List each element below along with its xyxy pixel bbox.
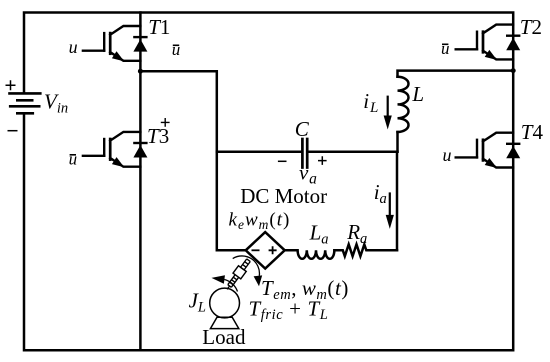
- svg-text:L: L: [411, 82, 424, 106]
- svg-text:Ra: Ra: [346, 220, 367, 247]
- svg-text:Tfric + TL: Tfric + TL: [249, 296, 329, 323]
- svg-text:C: C: [295, 117, 310, 141]
- svg-text:kewm(t): kewm(t): [229, 210, 291, 233]
- svg-text:u: u: [443, 145, 452, 165]
- svg-text:JL: JL: [189, 289, 206, 316]
- svg-text:u: u: [69, 150, 78, 169]
- svg-text:u: u: [69, 37, 78, 57]
- svg-text:T4: T4: [521, 120, 544, 144]
- svg-text:Load: Load: [202, 325, 246, 349]
- svg-text:u: u: [441, 39, 450, 58]
- svg-text:u: u: [172, 40, 181, 59]
- svg-text:DC Motor: DC Motor: [240, 184, 327, 208]
- svg-text:iL: iL: [363, 89, 379, 116]
- svg-text:T2: T2: [520, 15, 542, 39]
- svg-text:ia: ia: [374, 180, 387, 207]
- svg-text:Vin: Vin: [44, 90, 68, 117]
- svg-text:T1: T1: [148, 15, 170, 39]
- svg-text:T3: T3: [147, 124, 169, 148]
- svg-text:La: La: [309, 221, 329, 248]
